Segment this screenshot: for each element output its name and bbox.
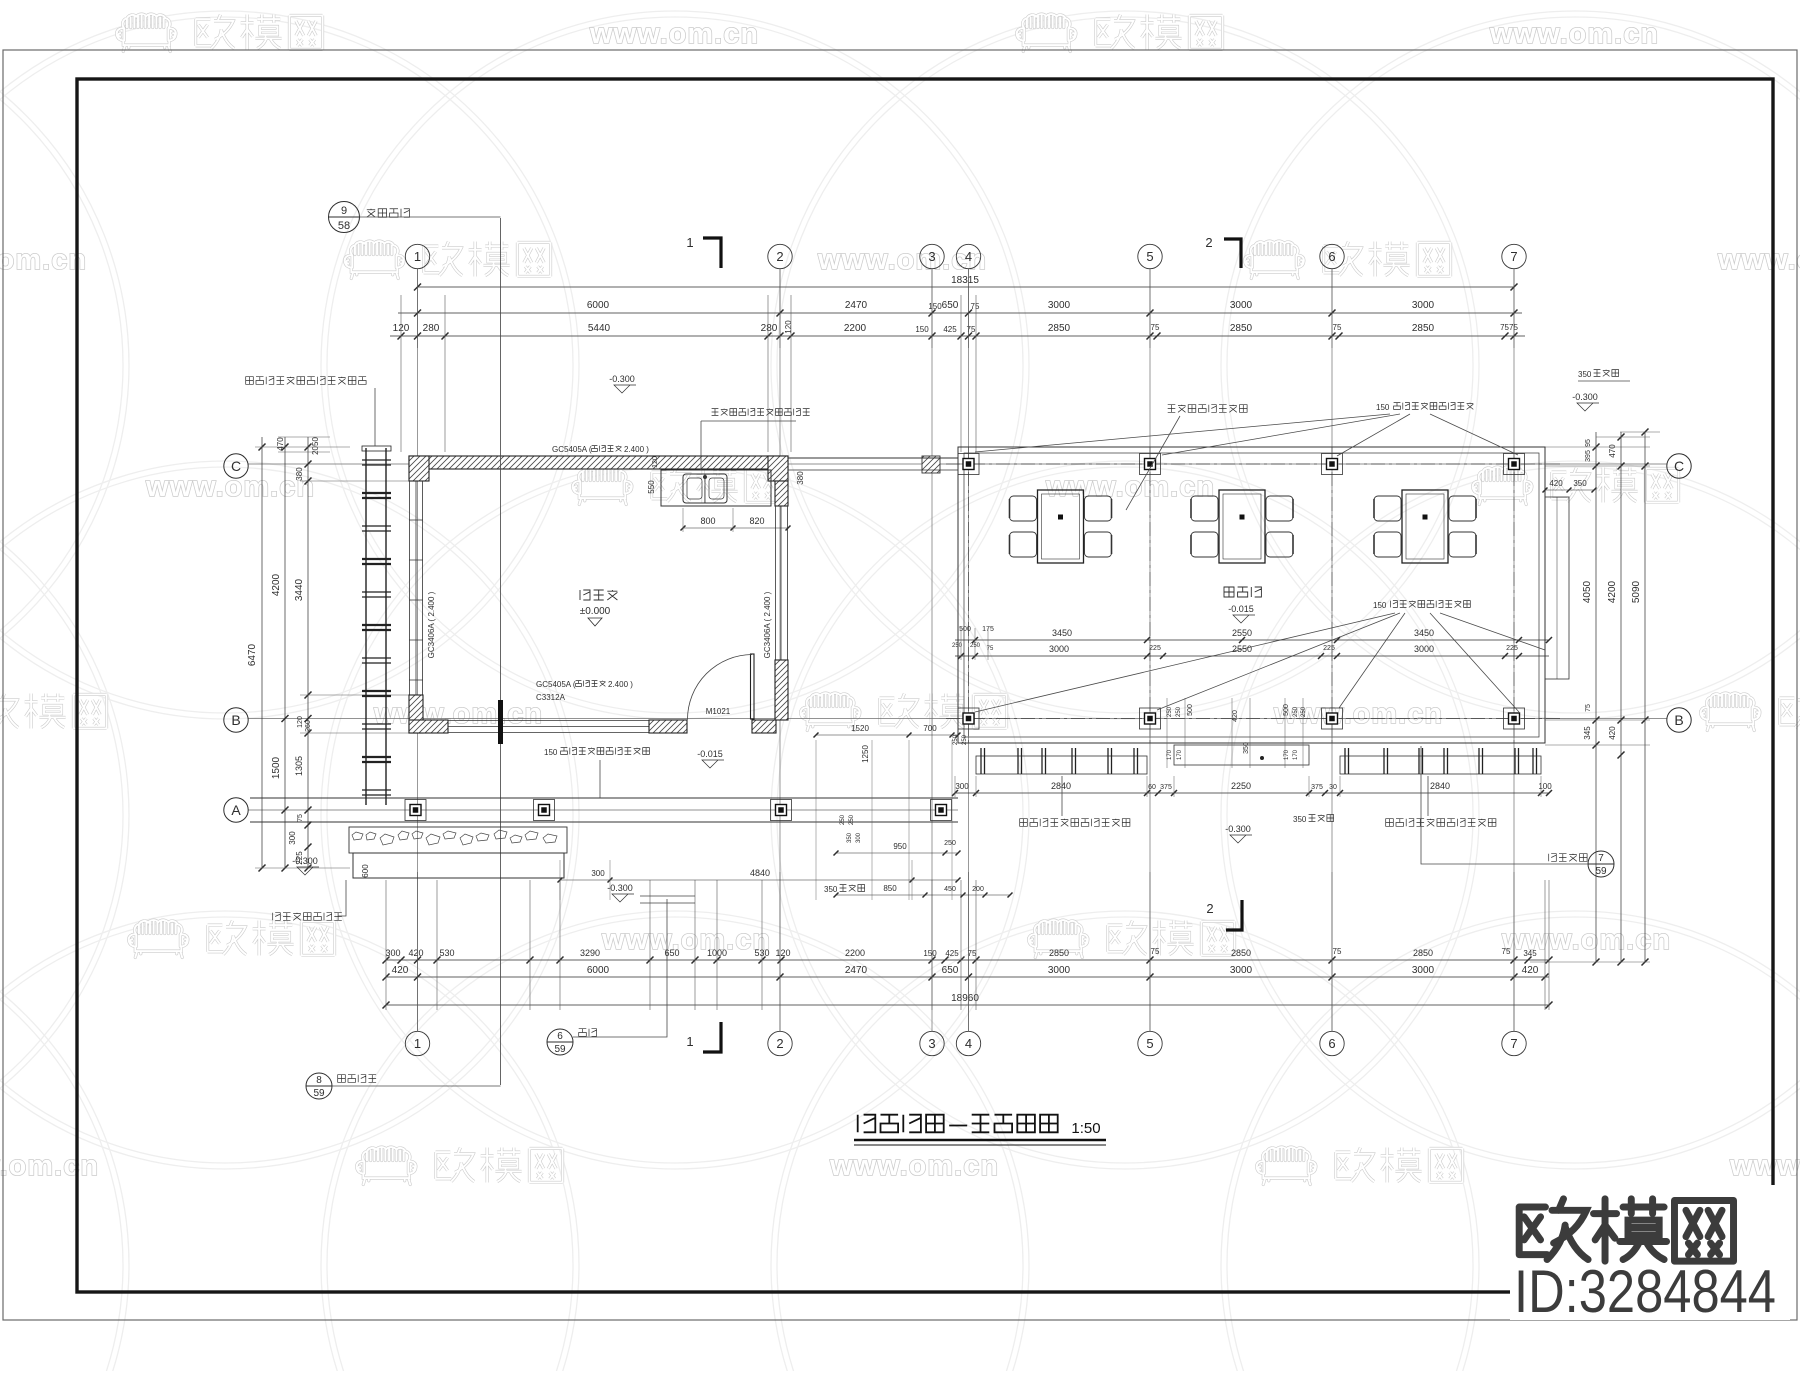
svg-text:GC5405A (: GC5405A ( (536, 680, 576, 689)
grid bubbles top (405, 244, 429, 268)
svg-text:3000: 3000 (1412, 965, 1435, 976)
top dimension chains (418, 286, 1515, 288)
svg-text:280: 280 (761, 323, 778, 334)
svg-text:75: 75 (1151, 323, 1160, 332)
svg-text:±0.000: ±0.000 (580, 606, 611, 617)
svg-text:3000: 3000 (1049, 644, 1069, 654)
svg-text:450: 450 (944, 886, 956, 893)
corridor labels (1224, 587, 1261, 597)
svg-text:2: 2 (776, 1036, 783, 1051)
svg-text:7: 7 (1510, 249, 1517, 264)
svg-text:380: 380 (796, 471, 805, 485)
svg-text:3000: 3000 (1048, 965, 1071, 976)
svg-text:150: 150 (1373, 601, 1387, 610)
svg-text:3000: 3000 (1412, 300, 1435, 311)
svg-text:GC3406A ( 2.400 ): GC3406A ( 2.400 ) (427, 591, 436, 658)
svg-text:550: 550 (647, 480, 656, 494)
grid bubbles left (224, 454, 248, 478)
svg-text:GC5405A (: GC5405A ( (552, 445, 592, 454)
right wall window (775, 481, 788, 506)
rack labels (1020, 819, 1130, 827)
svg-text:120: 120 (297, 716, 304, 728)
svg-text:2850: 2850 (1412, 323, 1435, 334)
svg-text:150: 150 (544, 748, 558, 757)
svg-text:225: 225 (1323, 645, 1335, 652)
svg-text:250: 250 (840, 814, 846, 825)
svg-text:GC3406A ( 2.400 ): GC3406A ( 2.400 ) (763, 591, 772, 658)
svg-text:4050: 4050 (1582, 580, 1593, 603)
svg-text:120: 120 (775, 948, 790, 958)
svg-text:420: 420 (1608, 726, 1617, 740)
svg-text:500: 500 (1283, 704, 1290, 716)
svg-text:4200: 4200 (271, 573, 282, 596)
connecting lines shop to corridor (788, 457, 958, 459)
svg-text:2850: 2850 (1231, 948, 1251, 958)
svg-text:250: 250 (1301, 706, 1307, 717)
svg-text:350: 350 (824, 885, 838, 894)
watermarks (117, 14, 323, 51)
svg-text:2: 2 (1205, 235, 1212, 250)
svg-text:C: C (231, 458, 241, 474)
seat label with leader (1168, 405, 1247, 413)
svg-text:600: 600 (361, 864, 370, 878)
svg-text:420: 420 (392, 965, 409, 976)
bottom extension lines (386, 880, 1549, 1010)
svg-text:75: 75 (1333, 947, 1342, 956)
svg-text:6: 6 (1328, 249, 1335, 264)
svg-text:1305: 1305 (294, 756, 304, 776)
svg-text:-0.015: -0.015 (697, 749, 723, 759)
svg-text:5090: 5090 (1631, 580, 1642, 603)
svg-text:420: 420 (1549, 479, 1563, 488)
svg-text:3450: 3450 (1052, 628, 1072, 638)
svg-text:345: 345 (1523, 949, 1537, 958)
svg-text:58: 58 (338, 220, 350, 232)
svg-text:5: 5 (1146, 249, 1153, 264)
svg-text:150: 150 (915, 325, 929, 334)
svg-text:59: 59 (554, 1044, 566, 1055)
svg-text:C3312A: C3312A (536, 693, 566, 702)
svg-text:170: 170 (1293, 749, 1299, 760)
svg-text:300: 300 (856, 832, 862, 843)
shop room walls (409, 456, 788, 469)
svg-text:2200: 2200 (845, 948, 865, 958)
svg-text:C: C (1674, 458, 1684, 474)
svg-text:700: 700 (923, 724, 937, 733)
svg-text:820: 820 (749, 516, 764, 526)
svg-text:300: 300 (288, 831, 297, 845)
svg-text:-0.015: -0.015 (1228, 604, 1254, 614)
svg-text:59: 59 (313, 1088, 325, 1099)
svg-text:250: 250 (953, 734, 959, 745)
svg-text:7: 7 (1510, 1036, 1517, 1051)
right dimension chains (1596, 432, 1645, 962)
svg-text:2470: 2470 (845, 300, 868, 311)
svg-text:380: 380 (295, 467, 304, 481)
lower mid dims (816, 734, 958, 736)
svg-text:3000: 3000 (1414, 644, 1434, 654)
svg-text:170: 170 (1167, 749, 1173, 760)
svg-text:1500: 1500 (271, 756, 282, 779)
svg-text:2.400 ): 2.400 ) (608, 680, 633, 689)
svg-text:3450: 3450 (1414, 628, 1434, 638)
planter stone wall (349, 827, 567, 853)
door M1021 (751, 654, 755, 719)
bottom-right site logo (1510, 1185, 1790, 1320)
svg-text:100: 100 (1538, 782, 1552, 791)
svg-text:-0.300: -0.300 (1225, 824, 1251, 834)
svg-text:8: 8 (316, 1075, 322, 1086)
svg-text:6470: 6470 (247, 643, 258, 666)
svg-text:1:50: 1:50 (1071, 1120, 1100, 1137)
svg-text:6000: 6000 (587, 300, 610, 311)
svg-text:60: 60 (1148, 784, 1156, 791)
planter label (273, 913, 342, 921)
svg-text:75: 75 (967, 325, 976, 334)
svg-text:75: 75 (297, 814, 304, 822)
svg-text:470: 470 (1608, 444, 1617, 458)
svg-text:75: 75 (968, 949, 977, 958)
svg-text:150: 150 (1376, 403, 1390, 412)
svg-text:6: 6 (557, 1031, 563, 1042)
rack dim row (955, 792, 1549, 794)
posts at grid 3 (922, 456, 940, 473)
shop labels (580, 590, 617, 600)
svg-text:4840: 4840 (750, 868, 770, 878)
svg-text:350: 350 (1578, 370, 1592, 379)
svg-text:2: 2 (1206, 901, 1213, 916)
svg-text:260: 260 (305, 720, 312, 732)
svg-text:2840: 2840 (1430, 781, 1450, 791)
svg-text:1520: 1520 (851, 724, 869, 733)
double sink label top (712, 409, 810, 416)
svg-text:1: 1 (686, 235, 693, 250)
svg-text:2250: 2250 (1231, 781, 1251, 791)
svg-text:7575: 7575 (1500, 323, 1518, 332)
svg-text:120: 120 (784, 320, 793, 334)
svg-text:395: 395 (1585, 450, 1592, 462)
planter box (353, 853, 564, 878)
svg-text:225: 225 (1149, 645, 1161, 652)
svg-text:-0.300: -0.300 (1572, 392, 1598, 402)
rack label top-left (246, 377, 366, 385)
svg-text:350: 350 (1573, 479, 1587, 488)
step between racks (1174, 745, 1309, 765)
svg-text:2850: 2850 (1413, 948, 1433, 958)
svg-text:150: 150 (923, 949, 937, 958)
svg-text:2200: 2200 (844, 323, 867, 334)
svg-text:950: 950 (893, 842, 907, 851)
svg-text:420: 420 (408, 948, 423, 958)
detail circle 9/58 (329, 202, 360, 233)
svg-text:200: 200 (972, 886, 984, 893)
svg-text:425: 425 (945, 949, 959, 958)
svg-text:30: 30 (1329, 784, 1337, 791)
svg-text:850: 850 (883, 884, 897, 893)
svg-text:250: 250 (944, 840, 956, 847)
pergola posts (405, 800, 426, 821)
svg-text:75: 75 (1151, 947, 1160, 956)
detail circle 8/59 (306, 1073, 332, 1099)
svg-text:4: 4 (965, 249, 972, 264)
svg-text:2470: 2470 (845, 965, 868, 976)
svg-text:375: 375 (1311, 784, 1323, 791)
svg-text:2.400 ): 2.400 ) (624, 445, 649, 454)
svg-text:3440: 3440 (294, 578, 305, 601)
svg-text:1250: 1250 (861, 745, 870, 763)
svg-text:59: 59 (1595, 866, 1607, 877)
svg-text:2840: 2840 (1051, 781, 1071, 791)
svg-text:5440: 5440 (588, 323, 611, 334)
grid row lines (248, 463, 1667, 465)
svg-text:420: 420 (1232, 710, 1239, 722)
svg-text:170: 170 (1177, 749, 1183, 760)
corridor posts (958, 454, 979, 475)
svg-text:3000: 3000 (1230, 300, 1253, 311)
svg-text:2850: 2850 (1049, 948, 1069, 958)
svg-text:7: 7 (1598, 853, 1604, 864)
left bike rack ladder (365, 448, 367, 805)
left wall window C3406A (410, 481, 423, 695)
svg-text:530: 530 (439, 948, 454, 958)
bike racks below B (976, 756, 1147, 774)
svg-text:1: 1 (686, 1034, 693, 1049)
svg-text:B: B (1674, 712, 1683, 728)
svg-text:350: 350 (1243, 742, 1250, 754)
svg-text:3290: 3290 (580, 948, 600, 958)
svg-text:4: 4 (965, 1036, 972, 1051)
svg-text:1: 1 (414, 1036, 421, 1051)
svg-text:800: 800 (700, 516, 715, 526)
pergola beams (250, 797, 958, 799)
svg-text:250: 250 (1167, 706, 1173, 717)
svg-text:18960: 18960 (951, 993, 979, 1004)
svg-text:170: 170 (1284, 749, 1290, 760)
svg-text:2: 2 (776, 249, 783, 264)
svg-text:2550: 2550 (1232, 628, 1252, 638)
svg-text:75: 75 (1502, 947, 1511, 956)
svg-text:A: A (231, 802, 241, 818)
svg-text:3000: 3000 (1230, 965, 1253, 976)
svg-text:120: 120 (652, 456, 659, 468)
svg-text:300: 300 (591, 869, 605, 878)
grid column lines (417, 269, 419, 1031)
svg-text:250: 250 (1176, 706, 1182, 717)
svg-text:500: 500 (1187, 704, 1194, 716)
svg-text:75: 75 (1333, 323, 1342, 332)
svg-text:6000: 6000 (587, 965, 610, 976)
svg-text:3000: 3000 (1048, 300, 1071, 311)
sink counter (661, 470, 771, 506)
corridor roof outline (958, 447, 1545, 743)
bottom wall with window C3312A and door opening (409, 720, 448, 733)
svg-text:250: 250 (1293, 706, 1299, 717)
svg-text:345: 345 (1583, 726, 1592, 740)
svg-text:2850: 2850 (1230, 323, 1253, 334)
grid bubbles bottom (405, 1031, 429, 1055)
svg-text:250: 250 (970, 643, 981, 649)
section cut line through shop (500, 218, 502, 1085)
svg-text:75: 75 (1585, 704, 1592, 712)
svg-text:2550: 2550 (1232, 644, 1252, 654)
left dimension chains (262, 437, 308, 868)
sink dims 800 820 (683, 527, 788, 529)
svg-text:M1021: M1021 (706, 707, 731, 716)
svg-text:300: 300 (385, 948, 400, 958)
top extension lines (401, 295, 976, 452)
svg-text:5: 5 (1146, 1036, 1153, 1051)
bottom dimension chains (386, 959, 1549, 961)
right step strip (1545, 497, 1569, 679)
corridor centerlines (946, 463, 1560, 465)
detail circle 7/59 (1588, 851, 1614, 877)
detail circle 6/59 (547, 1029, 573, 1055)
svg-text:350: 350 (847, 832, 853, 843)
left extension lines (255, 447, 350, 868)
svg-text:-0.300: -0.300 (609, 374, 635, 384)
svg-text:470: 470 (276, 437, 285, 451)
svg-text:-0.300: -0.300 (292, 856, 318, 866)
svg-text:150: 150 (928, 302, 942, 311)
svg-text:3: 3 (928, 249, 935, 264)
svg-text:B: B (231, 712, 240, 728)
svg-text:375: 375 (1160, 784, 1172, 791)
svg-text:75: 75 (971, 302, 980, 311)
svg-text:9: 9 (341, 205, 347, 217)
svg-text:250: 250 (962, 734, 968, 745)
svg-text:1: 1 (414, 249, 421, 264)
svg-text:300: 300 (955, 782, 969, 791)
svg-text:18315: 18315 (951, 275, 979, 286)
svg-text:350: 350 (1293, 815, 1307, 824)
svg-text:ID:3284844: ID:3284844 (1514, 1258, 1776, 1325)
title: cycling station first floor plan 1:50 (858, 1115, 1058, 1133)
svg-text:-0.300: -0.300 (607, 883, 633, 893)
svg-text:2850: 2850 (1048, 323, 1071, 334)
svg-text:4200: 4200 (1607, 580, 1618, 603)
right extension lines (1545, 447, 1650, 745)
svg-text:650: 650 (942, 300, 959, 311)
tables with chairs (1038, 490, 1084, 563)
svg-text:650: 650 (942, 965, 959, 976)
grid bubbles right (1667, 454, 1691, 478)
svg-text:280: 280 (423, 323, 440, 334)
svg-text:3: 3 (928, 1036, 935, 1051)
svg-text:250: 250 (849, 814, 855, 825)
svg-text:95: 95 (1585, 439, 1592, 447)
svg-text:6: 6 (1328, 1036, 1335, 1051)
svg-text:225: 225 (1506, 645, 1518, 652)
mid dim rows corridor (955, 639, 1549, 641)
svg-text:420: 420 (1522, 965, 1539, 976)
svg-text:425: 425 (943, 325, 957, 334)
